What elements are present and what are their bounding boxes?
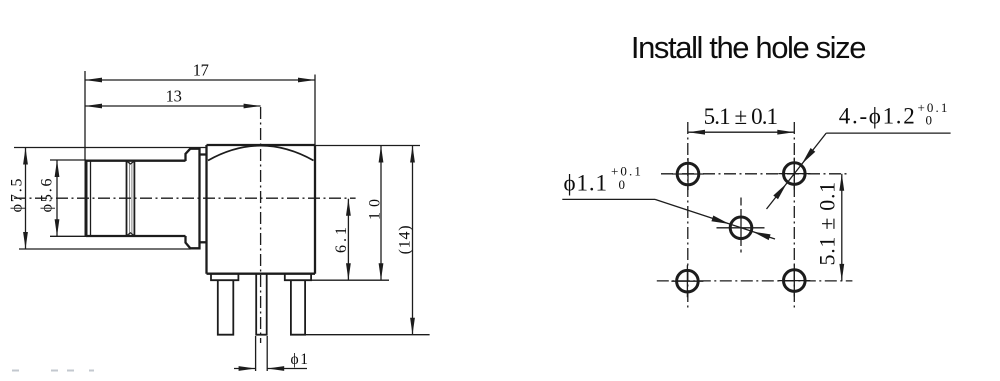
svg-text:10: 10	[367, 194, 384, 220]
flange outline	[186, 149, 200, 249]
top extension line to right dims	[315, 145, 420, 147]
mounting hole BR	[793, 265, 795, 297]
dimension 6.1 line	[347, 199, 349, 281]
svg-text:(14): (14)	[397, 225, 414, 255]
horizontal centerline	[14, 197, 356, 199]
svg-text:+0.1: +0.1	[918, 100, 950, 115]
base bottom extension line	[311, 279, 389, 281]
left leg base	[211, 274, 238, 281]
groove notch bottom	[127, 233, 135, 236]
block top dome arc	[208, 146, 314, 161]
leader line to hole C	[655, 199, 775, 239]
hole pattern centerline vertical left	[687, 122, 689, 309]
hole pattern centerline horizontal top	[661, 173, 847, 175]
label phi1.1 underline leader	[562, 198, 655, 200]
pin extension line right	[266, 336, 268, 371]
right-angle block outline	[205, 145, 207, 274]
svg-text:0: 0	[926, 113, 933, 128]
label 4.-phi1.2 underline leader	[826, 132, 950, 134]
groove notch top	[127, 161, 135, 164]
svg-text:13: 13	[166, 86, 182, 105]
neck top line	[200, 153, 207, 155]
dimension phi5.6 extension bottom	[50, 235, 86, 237]
svg-text:5.1 ± 0.1: 5.1 ± 0.1	[815, 181, 840, 265]
dimension 17 line	[85, 79, 315, 81]
svg-text:17: 17	[193, 60, 209, 79]
dimension phi5.6 line	[56, 160, 58, 236]
mounting hole TR	[793, 158, 795, 190]
svg-text:ϕ1.1: ϕ1.1	[564, 171, 608, 196]
dimension phi5.6 extension top	[50, 159, 86, 161]
svg-text:ϕ1: ϕ1	[291, 351, 310, 368]
mounting hole TL	[687, 158, 689, 190]
center hole centerline horizontal	[717, 227, 765, 229]
faint watermark dots	[12, 370, 94, 372]
vertical centerline	[260, 107, 262, 343]
neck bottom line	[200, 241, 207, 243]
svg-text:0: 0	[619, 177, 626, 192]
dimension 5.1 top line	[688, 131, 794, 133]
right leg	[291, 280, 305, 335]
center pin	[256, 274, 267, 335]
svg-text:ϕ5.6: ϕ5.6	[39, 177, 56, 213]
svg-text:4.-ϕ1.2: 4.-ϕ1.2	[839, 104, 917, 129]
leader line to hole TR	[767, 133, 827, 209]
left leg	[218, 280, 234, 335]
hole pattern centerline vertical right	[793, 122, 795, 309]
pin extension line left	[255, 336, 257, 371]
center hole centerline vertical	[740, 198, 742, 206]
dimension phi1 line left	[234, 368, 256, 370]
cylinder groove lines	[126, 162, 128, 236]
dimension 13 line	[85, 105, 261, 107]
svg-text:Install the hole size: Install the hole size	[631, 30, 865, 65]
dimension phi7.5 extension top	[14, 147, 207, 149]
dimension phi7.5 line	[25, 148, 27, 250]
cylinder front chamfer line	[90, 161, 92, 236]
svg-text:5.1 ± 0.1: 5.1 ± 0.1	[704, 104, 778, 129]
svg-text:ϕ7.5: ϕ7.5	[9, 177, 26, 213]
dimension (14) line	[412, 146, 414, 335]
svg-text:6.1: 6.1	[333, 224, 350, 253]
svg-text:+0.1: +0.1	[611, 164, 643, 179]
leg bottom extension line	[306, 334, 430, 336]
dimension 17 extension line left	[84, 71, 86, 161]
dimension phi7.5 extension bottom	[19, 248, 191, 250]
hole pattern centerline horizontal bottom	[657, 280, 853, 282]
mounting hole BL	[686, 265, 688, 297]
right leg base	[285, 274, 311, 281]
dimension 10 line	[380, 146, 382, 281]
mounting hole C	[730, 217, 752, 239]
connector cylinder body outline	[86, 160, 186, 162]
dimension 17 extension line right	[314, 75, 316, 146]
dimension phi1 line right	[267, 368, 307, 370]
dimension 5.1 right line	[841, 174, 843, 281]
